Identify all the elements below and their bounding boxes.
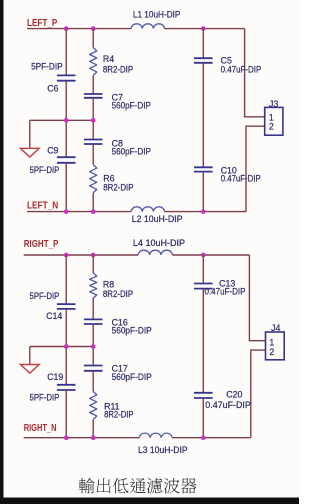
ground symbol (left block): [20, 148, 39, 157]
wire C20 bottom lead: [202, 398, 204, 438]
junction right top rail / C13 column: [201, 253, 206, 258]
inductor L4 coil: [138, 250, 172, 255]
svg-text:C20: C20: [226, 389, 242, 399]
wire C16 to right mid rail: [92, 324, 94, 347]
capacitor C14: [57, 304, 76, 309]
wire R4 top lead: [92, 29, 94, 48]
inductor L3 coil: [139, 433, 172, 438]
wire C8 top lead: [92, 120, 94, 139]
junction right bottom rail / C19 column: [64, 435, 69, 440]
wire RIGHT_N rail left segment: [24, 437, 140, 439]
svg-text:0.47uF-DIP: 0.47uF-DIP: [205, 286, 246, 296]
svg-text:5PF-DIP: 5PF-DIP: [30, 393, 60, 403]
svg-text:5PF-DIP: 5PF-DIP: [30, 165, 60, 175]
wire R6 bottom lead: [92, 193, 94, 212]
svg-text:8R2-DIP: 8R2-DIP: [103, 289, 133, 299]
svg-text:C6: C6: [47, 83, 58, 93]
capacitor C6: [57, 75, 76, 80]
wire C9 top lead: [65, 120, 67, 157]
junction right mid rail / C16-C17 column: [91, 344, 96, 349]
svg-text:8R2-DIP: 8R2-DIP: [103, 183, 133, 193]
svg-text:J3: J3: [269, 99, 278, 109]
wire LEFT_P rail left segment: [27, 28, 131, 30]
wire C6 top lead: [65, 29, 67, 76]
wire C13 to C20: [202, 289, 204, 393]
wire C13 top lead: [202, 255, 204, 284]
resistor R11: [90, 391, 97, 419]
capacitor C8: [84, 140, 103, 145]
svg-text:C9: C9: [47, 146, 58, 156]
svg-text:LEFT_N: LEFT_N: [27, 200, 58, 211]
svg-text:R4: R4: [103, 54, 114, 64]
resistor R8: [90, 273, 97, 298]
svg-text:C19: C19: [47, 372, 63, 382]
svg-text:RIGHT_N: RIGHT_N: [24, 423, 57, 434]
svg-text:5PF-DIP: 5PF-DIP: [31, 62, 63, 72]
wire RIGHT_N rail right segment: [172, 437, 251, 439]
resistor R6: [90, 165, 97, 193]
svg-text:C14: C14: [46, 311, 62, 321]
wire C7 to mid rail: [92, 98, 94, 121]
wire to J4 pin 1: [249, 255, 265, 341]
junction right top rail / C14 column: [64, 253, 69, 258]
svg-text:L1 10uH-DIP: L1 10uH-DIP: [133, 10, 181, 20]
junction mid rail / C6-C9 column: [64, 118, 69, 123]
inductor L2 coil: [131, 207, 164, 212]
wire to J3 pin 1: [245, 29, 265, 117]
capacitor C17: [84, 366, 103, 371]
title text 輸出低通濾波器 (output low-pass filter): [79, 478, 196, 494]
wire R4 to C7: [92, 75, 94, 94]
junction bottom rail / R6 column: [91, 209, 96, 214]
wire RIGHT_P rail left segment: [24, 254, 139, 256]
wire LEFT_N rail right segment: [165, 211, 247, 213]
svg-text:8R2-DIP: 8R2-DIP: [103, 64, 133, 74]
svg-text:2: 2: [269, 347, 274, 357]
junction top rail / C5 column: [201, 26, 206, 31]
svg-text:560pF-DIP: 560pF-DIP: [112, 146, 151, 156]
wire ground lead: [29, 120, 31, 148]
svg-text:0.47uF-DIP: 0.47uF-DIP: [221, 174, 261, 184]
wire R11 bottom lead: [92, 420, 94, 438]
junction right bottom rail / C20 column: [201, 435, 206, 440]
wire C14 bottom lead: [65, 309, 67, 347]
wire C14 top lead: [65, 255, 67, 304]
junction bottom rail / C10 column: [201, 209, 206, 214]
wire C17 to R11: [92, 371, 94, 392]
capacitor C20: [194, 393, 213, 398]
wire R8 top lead: [92, 255, 94, 273]
wire C17 top lead: [92, 347, 94, 366]
svg-text:RIGHT_P: RIGHT_P: [24, 239, 59, 250]
connector J3 body: [265, 107, 283, 135]
junction top rail / C6 column: [64, 26, 69, 31]
junction right mid rail / C14-C19 column: [64, 344, 69, 349]
svg-text:560pF-DIP: 560pF-DIP: [112, 326, 152, 336]
junction mid rail / C7-C8 column: [91, 118, 96, 123]
svg-text:5PF-DIP: 5PF-DIP: [30, 291, 60, 301]
svg-text:LEFT_P: LEFT_P: [27, 18, 58, 29]
wire R8 to C16: [92, 298, 94, 319]
svg-text:560pF-DIP: 560pF-DIP: [112, 101, 151, 111]
inductor L1 coil: [131, 24, 164, 29]
capacitor C10: [194, 167, 213, 171]
wire right ground lead: [29, 347, 31, 365]
svg-text:L3 10uH-DIP: L3 10uH-DIP: [138, 445, 188, 455]
wire C19 top lead: [65, 347, 67, 385]
wire C10 bottom lead: [202, 172, 204, 212]
svg-text:8R2-DIP: 8R2-DIP: [104, 409, 134, 419]
capacitor C9: [57, 157, 76, 163]
wire LEFT_N rail left segment: [27, 211, 131, 213]
wire LEFT_P rail right segment: [165, 28, 245, 30]
wire C6 bottom lead: [65, 81, 67, 121]
wire C5 top lead: [202, 29, 204, 59]
junction top rail / R4 column: [91, 26, 96, 31]
wire C5 to C10: [202, 63, 204, 168]
svg-text:L2 10uH-DIP: L2 10uH-DIP: [132, 214, 183, 224]
svg-text:0.47uF-DIP: 0.47uF-DIP: [205, 400, 251, 410]
capacitor C13: [194, 284, 213, 289]
junction right bottom rail / R11 column: [91, 435, 96, 440]
junction bottom rail / C9 column: [64, 209, 69, 214]
wire mid rail to ground: [30, 119, 93, 121]
resistor R4: [90, 48, 97, 76]
svg-text:560pF-DIP: 560pF-DIP: [112, 372, 152, 382]
ground symbol (right block): [20, 365, 39, 374]
svg-text:0.47uF-DIP: 0.47uF-DIP: [221, 64, 262, 74]
wire C8 to R6: [92, 144, 94, 165]
capacitor C5: [194, 58, 213, 63]
wire J4 pin 2 to RIGHT_N rail: [251, 350, 266, 438]
wire J3 pin 2 to LEFT_N rail: [246, 126, 265, 211]
connector J4 body: [266, 332, 285, 360]
junction right top rail / R8 column: [91, 253, 96, 258]
capacitor C19: [57, 385, 76, 390]
capacitor C7: [84, 94, 103, 98]
svg-text:2: 2: [269, 122, 274, 132]
svg-text:J4: J4: [271, 323, 280, 333]
wire C19 bottom lead: [65, 390, 67, 438]
wire right mid rail to ground: [30, 346, 93, 348]
svg-text:R8: R8: [103, 279, 114, 289]
wire RIGHT_P rail right segment: [172, 254, 249, 256]
capacitor C16: [84, 319, 103, 324]
wire C9 bottom lead: [65, 163, 67, 212]
svg-text:L4 10uH-DIP: L4 10uH-DIP: [133, 238, 185, 248]
